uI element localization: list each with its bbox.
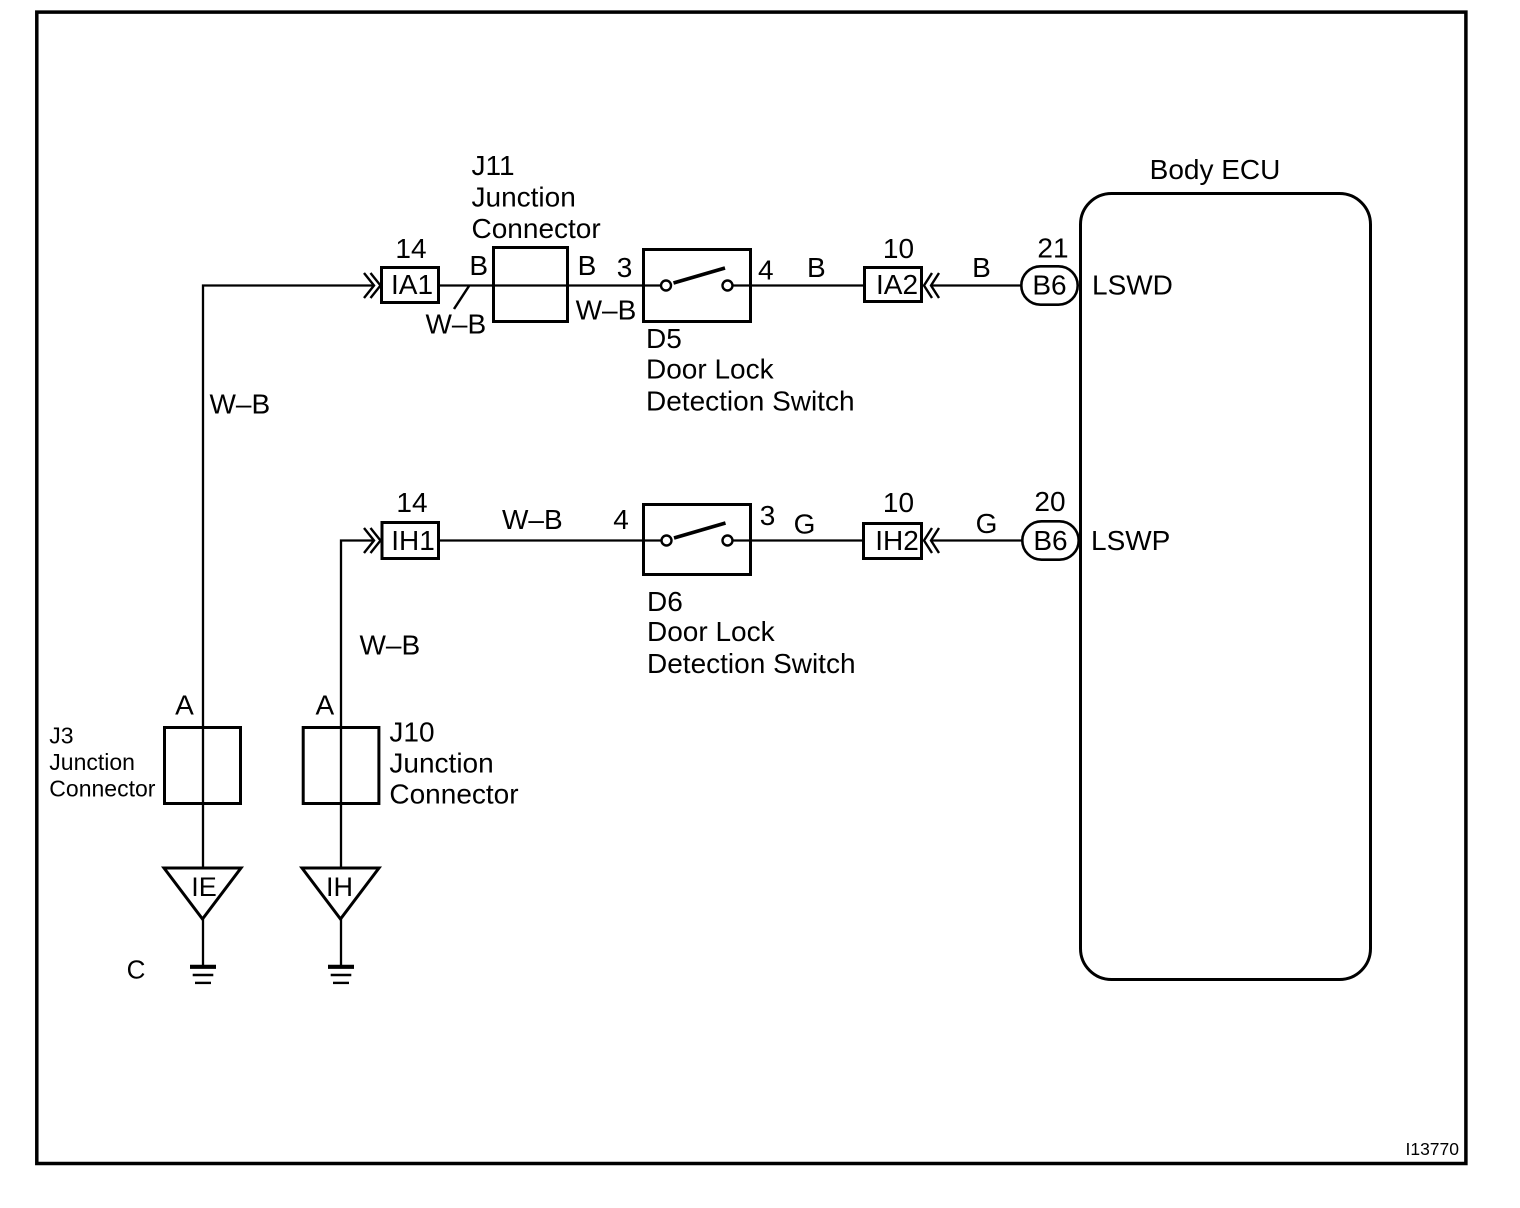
svg-text:G: G [794, 509, 816, 540]
svg-text:C: C [127, 955, 146, 985]
svg-text:J10: J10 [389, 717, 434, 748]
svg-text:21: 21 [1037, 233, 1068, 264]
svg-text:W–B: W–B [360, 630, 421, 661]
svg-text:20: 20 [1034, 486, 1065, 517]
svg-text:IH: IH [326, 872, 353, 902]
svg-text:A: A [315, 690, 334, 721]
svg-text:A: A [175, 690, 194, 721]
svg-text:14: 14 [395, 233, 426, 264]
svg-text:LSWD: LSWD [1092, 270, 1173, 301]
svg-text:3: 3 [760, 500, 776, 531]
svg-text:IE: IE [191, 872, 217, 902]
svg-text:W–B: W–B [426, 309, 487, 340]
svg-text:D6: D6 [647, 586, 683, 617]
svg-text:Detection Switch: Detection Switch [646, 386, 855, 417]
svg-text:Junction: Junction [389, 748, 493, 779]
svg-text:4: 4 [758, 255, 774, 286]
svg-text:Connector: Connector [472, 213, 601, 244]
svg-text:Door Lock: Door Lock [646, 354, 775, 385]
svg-text:IH1: IH1 [391, 525, 435, 556]
svg-text:Junction: Junction [472, 182, 576, 213]
svg-text:J3: J3 [49, 723, 73, 749]
svg-text:G: G [976, 508, 998, 539]
svg-text:W–B: W–B [502, 504, 563, 535]
svg-text:Junction: Junction [49, 749, 135, 775]
svg-text:B: B [972, 252, 991, 283]
svg-text:3: 3 [617, 252, 633, 283]
svg-text:4: 4 [613, 504, 629, 535]
svg-text:IA1: IA1 [391, 269, 433, 300]
svg-text:B6: B6 [1032, 270, 1066, 301]
svg-text:LSWP: LSWP [1091, 525, 1170, 556]
svg-text:W–B: W–B [576, 295, 637, 326]
svg-text:B6: B6 [1033, 525, 1067, 556]
svg-text:B: B [807, 252, 826, 283]
svg-text:D5: D5 [646, 323, 682, 354]
svg-text:Connector: Connector [389, 779, 518, 810]
svg-text:J11: J11 [472, 150, 515, 181]
svg-text:B: B [469, 250, 488, 281]
svg-text:IA2: IA2 [876, 269, 918, 300]
svg-text:Connector: Connector [49, 776, 155, 802]
svg-text:IH2: IH2 [875, 525, 919, 556]
svg-text:B: B [578, 250, 597, 281]
svg-text:I13770: I13770 [1405, 1139, 1459, 1159]
svg-text:10: 10 [883, 233, 914, 264]
svg-text:Detection Switch: Detection Switch [647, 648, 856, 679]
svg-text:Body ECU: Body ECU [1150, 154, 1281, 185]
svg-text:W–B: W–B [210, 389, 271, 420]
svg-text:10: 10 [883, 487, 914, 518]
svg-text:14: 14 [396, 487, 427, 518]
svg-text:Door Lock: Door Lock [647, 616, 776, 647]
